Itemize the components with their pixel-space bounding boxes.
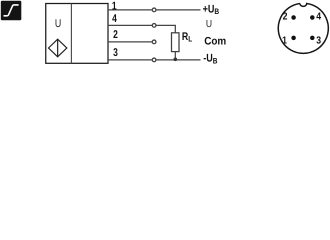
resistor RL bottom lead <box>174 52 176 60</box>
resistor RL body <box>172 33 180 52</box>
diamond symbol (voltage source) <box>49 39 67 57</box>
svg-text:U: U <box>55 18 61 30</box>
wire 1 right segment <box>156 9 200 11</box>
wire 1 (+UB) <box>108 9 152 11</box>
terminal circle wire 3 <box>152 40 156 44</box>
svg-text:RL: RL <box>182 31 192 44</box>
sensor box U1 <box>46 4 108 64</box>
wire 2 (U) <box>108 24 152 26</box>
terminal circle wire 2 <box>152 24 156 28</box>
divider <box>70 4 72 64</box>
svg-text:1: 1 <box>282 35 287 46</box>
svg-text:-UB: -UB <box>203 53 217 66</box>
analog output icon (black square with ramp curve) <box>1 1 22 21</box>
M12 connector outline with keyway notch <box>278 3 328 53</box>
svg-text:3: 3 <box>316 35 321 46</box>
terminal circle wire 4 <box>152 58 156 62</box>
svg-text:U: U <box>206 19 212 30</box>
svg-text:+UB: +UB <box>203 4 220 16</box>
svg-text:2: 2 <box>113 29 118 41</box>
svg-text:1: 1 <box>112 0 117 12</box>
svg-text:Com: Com <box>204 36 226 48</box>
svg-text:2: 2 <box>283 11 288 22</box>
svg-text:3: 3 <box>113 47 118 59</box>
svg-text:4: 4 <box>112 13 117 25</box>
terminal circle wire 1 <box>152 8 156 12</box>
svg-text:4: 4 <box>316 11 321 22</box>
wire 2 right segment with corner down to resistor <box>156 25 175 32</box>
wire 3 (Com) <box>108 41 152 43</box>
connector pin dot 4 <box>310 15 315 20</box>
connector pin dot 1 <box>291 36 296 41</box>
connector pin dot 3 <box>310 36 315 41</box>
wire 4 (-UB) <box>108 59 152 61</box>
connector pin dot 2 <box>291 15 296 20</box>
junction dot on -UB wire <box>174 58 178 62</box>
wire 4 right segment <box>156 59 200 61</box>
